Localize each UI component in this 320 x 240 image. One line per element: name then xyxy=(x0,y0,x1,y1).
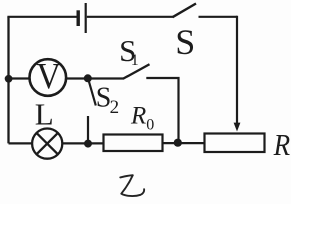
wire V branch left xyxy=(9,77,30,79)
resistor R0 xyxy=(104,135,163,152)
voltmeter V xyxy=(30,59,67,96)
node junction V-S1-S2 xyxy=(84,74,92,82)
svg-text:R: R xyxy=(130,102,146,129)
node junction S1-bottom xyxy=(174,139,182,147)
wire R0 to R xyxy=(163,142,205,144)
battery cell xyxy=(78,3,86,33)
rheostat R body xyxy=(205,134,265,153)
switch S2 blade xyxy=(89,80,96,106)
wire battery to switch S xyxy=(87,16,173,18)
wire S1 contact to corner and down xyxy=(146,78,178,143)
wire V to node xyxy=(66,77,88,79)
svg-text:V: V xyxy=(36,57,61,98)
lamp L xyxy=(32,129,62,159)
wire left vertical xyxy=(7,17,9,144)
wire node to S1 pivot xyxy=(88,77,124,79)
label 乙 (figure caption) xyxy=(120,175,144,196)
svg-text:1: 1 xyxy=(131,52,139,69)
wire right vertical (to wiper) xyxy=(236,16,238,125)
switch S blade xyxy=(173,4,197,18)
svg-text:R: R xyxy=(273,127,290,162)
node junction left-V xyxy=(5,75,13,83)
svg-text:S: S xyxy=(175,22,195,62)
svg-text:0: 0 xyxy=(146,116,154,133)
wire top left (to battery) xyxy=(7,16,77,18)
wire S2 contact post xyxy=(87,116,89,143)
wire lamp to R0 xyxy=(62,142,103,144)
node junction S2-bottom xyxy=(84,140,92,148)
switch S1 blade xyxy=(123,64,150,79)
wiper arrowhead on R xyxy=(234,123,241,132)
svg-text:L: L xyxy=(35,96,54,131)
wire bottom left (to lamp) xyxy=(9,142,33,144)
svg-text:2: 2 xyxy=(110,97,120,118)
wire switch S to right corner xyxy=(199,16,238,18)
